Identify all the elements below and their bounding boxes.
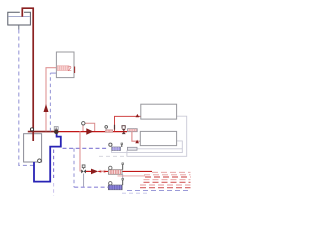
air vent on floor return [122, 178, 124, 185]
pump circle on boiler [38, 159, 42, 163]
wire: bypass between floor supply and return [122, 174, 124, 179]
boiler B1 [24, 134, 42, 162]
air vent on floor supply [122, 163, 124, 170]
pump P5 on floor return [108, 182, 122, 190]
wire: tank drain stub [18, 25, 20, 30]
wire: return header extension to risers (thin gray) [137, 148, 182, 150]
wire: dashed violet return drop [53, 150, 55, 197]
valve: motorized valve on floor supply [81, 165, 86, 187]
pump P4 on floor supply [108, 166, 122, 174]
DHW unit box U2 [56, 52, 74, 78]
wire: expansion dashed line from tank to boiler [19, 30, 34, 166]
radiator R1 [141, 104, 177, 119]
arrow: into radiator R2 [135, 140, 139, 144]
wire: radiator R2 return (thin gray) [112, 141, 183, 153]
arrow: into radiator R1 [136, 114, 140, 117]
pipe: main supply left segment (dark red) [28, 131, 56, 133]
fitting box on return row [127, 147, 137, 150]
valve V2 with stem on supply [122, 126, 126, 134]
arrow: flow up DHW riser [44, 104, 49, 112]
bypass loop over pump [83, 123, 95, 131]
pump P3 on radiator return [109, 143, 121, 150]
expansion tank ET1 [8, 12, 31, 25]
floor heating coil FC1 [118, 172, 191, 187]
valve: 3-way mixing valve V1 [54, 127, 59, 134]
pump P1 arrow on main supply [86, 128, 93, 135]
pipe: floor supply line (red) [86, 170, 152, 172]
wire: floor heating return riser dashed (lavender) [73, 148, 75, 187]
pipe: boiler return loop (blue) [34, 134, 61, 182]
radiator R2 [140, 131, 176, 145]
valve circle on bypass [82, 122, 85, 125]
floor coil return (blue dashed) [122, 191, 191, 194]
svg-text:2: 2 [68, 66, 72, 73]
sensor circle on supply [30, 128, 33, 131]
heat exchanger inside DHW unit [57, 66, 74, 73]
riser: DHW supply (pink) [46, 68, 56, 132]
wire: floor return dashed to riser [74, 186, 108, 188]
riser: DHW return dashed (lavender) [50, 73, 56, 131]
pump P2 circle and body on supply [105, 126, 113, 133]
valve: light bowtie on floor supply [100, 170, 106, 173]
pipe: floor heating supply drop (pink) [80, 131, 81, 171]
arrow: floor supply flow [91, 169, 98, 175]
wire: radiator R1 return (thin gray) [127, 116, 187, 156]
branch: radiator R2 supply [132, 132, 140, 142]
wire: dashed gray return continuation left [99, 155, 127, 157]
wire: radiator return dash-dot (lavender) [63, 147, 109, 149]
air vent on return row [121, 143, 123, 147]
manifold box on supply end [128, 129, 138, 132]
pipe: safety line from boiler to tank (dark red) [22, 8, 33, 141]
pipe: main supply right segment (red) [57, 131, 128, 133]
branch: radiator R1 supply [115, 116, 141, 131]
